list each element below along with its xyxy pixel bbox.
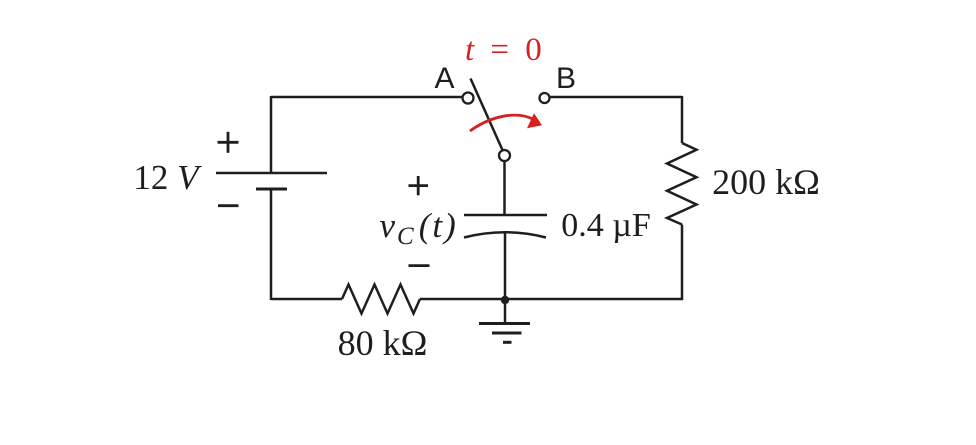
- capacitor C1 bottom lead wire: [504, 233, 507, 300]
- battery minus sign: [218, 204, 239, 207]
- wire left vertical upper: [270, 96, 273, 173]
- wire bottom-right to right leg: [420, 298, 683, 301]
- node junction dot: [501, 296, 509, 304]
- capacitor C1 top lead wire: [503, 161, 506, 215]
- wire right vertical upper: [681, 96, 684, 143]
- switch terminal A contact: [463, 93, 474, 104]
- svg-text:vC(t): vC(t): [380, 206, 458, 250]
- battery V1 long plate: [216, 172, 327, 175]
- battery plus sign: [218, 132, 239, 153]
- svg-text:B: B: [556, 62, 576, 95]
- ground bar short: [503, 341, 512, 344]
- capacitor plus sign: [409, 176, 429, 195]
- wire top-right from switch B to right corner: [550, 96, 682, 99]
- svg-text:t = 0: t = 0: [465, 32, 546, 68]
- capacitor minus sign: [409, 264, 430, 267]
- svg-text:200 kΩ: 200 kΩ: [712, 162, 820, 202]
- svg-text:0.4 µF: 0.4 µF: [561, 207, 651, 244]
- svg-text:80 kΩ: 80 kΩ: [338, 323, 428, 363]
- switch blade: [471, 79, 503, 151]
- battery V1 short plate: [256, 188, 287, 191]
- resistor R2 200k zigzag: [667, 143, 697, 225]
- capacitor C1 bottom curved plate: [464, 232, 546, 237]
- wire bottom-left from battery down leg: [271, 298, 342, 301]
- resistor R1 80k zigzag: [342, 285, 420, 314]
- switch action red arrow: [470, 113, 542, 131]
- ground stub wire: [504, 300, 507, 324]
- wire top-left from battery to switch A: [271, 96, 462, 99]
- switch terminal B contact: [540, 93, 550, 103]
- wire right vertical lower: [681, 225, 684, 301]
- capacitor C1 top plate: [464, 214, 547, 217]
- ground bar long: [479, 322, 530, 325]
- svg-text:12 V: 12 V: [133, 158, 202, 197]
- ground bar middle: [492, 332, 522, 335]
- switch pole contact: [499, 150, 510, 161]
- wire left vertical lower: [270, 189, 273, 300]
- svg-text:A: A: [434, 62, 454, 95]
